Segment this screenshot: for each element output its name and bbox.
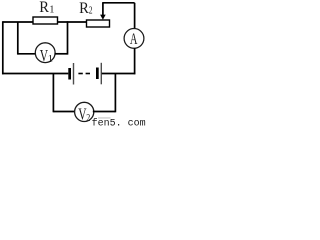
voltmeter V1 xyxy=(35,43,55,65)
wire V1 branch right vertical xyxy=(67,21,69,54)
slider arrow of R2 xyxy=(100,3,106,20)
wire battery row right xyxy=(102,73,136,75)
wire V2 right horizontal xyxy=(93,111,116,113)
svg-text:2: 2 xyxy=(86,112,90,124)
wire V1 branch left vertical xyxy=(17,22,19,55)
wire left vertical xyxy=(2,21,4,74)
svg-text:A: A xyxy=(130,31,138,48)
svg-text:R: R xyxy=(39,0,49,16)
svg-text:1: 1 xyxy=(49,5,54,16)
wire V2 branch right vertical xyxy=(114,74,116,113)
wire battery row left xyxy=(2,73,68,75)
resistor R1 xyxy=(33,17,58,24)
wire V1 right horizontal xyxy=(55,53,68,55)
wire V2 branch left vertical xyxy=(52,74,54,113)
svg-text:fen5. com: fen5. com xyxy=(92,118,146,127)
wire ammeter down to battery row xyxy=(134,48,136,74)
wire dashed between cells xyxy=(78,73,90,75)
wire right vertical down to ammeter xyxy=(134,3,136,29)
battery cell 1 xyxy=(68,63,74,85)
wire V1 left horizontal xyxy=(18,53,36,55)
svg-text:1: 1 xyxy=(48,53,54,65)
wire between R1 and R2 xyxy=(58,21,87,23)
battery cell 2 xyxy=(96,63,102,85)
ammeter A xyxy=(124,29,144,49)
rheostat R2 xyxy=(87,20,110,27)
wire top-left horizontal to R1 xyxy=(3,21,33,23)
wire slider to right top xyxy=(102,2,134,4)
voltmeter V2 xyxy=(75,102,94,124)
svg-text:2: 2 xyxy=(89,6,93,17)
watermark xyxy=(92,117,146,129)
wire V2 left horizontal xyxy=(53,111,75,113)
